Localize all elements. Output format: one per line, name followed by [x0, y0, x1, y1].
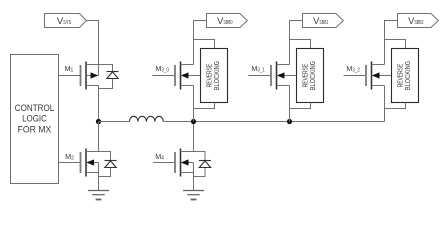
transistor M2	[59, 149, 117, 177]
reverse blocking box 2	[392, 49, 419, 103]
wire VSBB2 to branch rail	[385, 21, 398, 65]
wire box2 bottom jog to rail	[385, 103, 406, 109]
net flag VSYS	[45, 14, 87, 28]
ground symbol (M4)	[183, 191, 204, 200]
wire VSBB0 to branch rail	[194, 21, 207, 65]
control logic box U1	[11, 55, 59, 184]
svg-text:BLOCKING: BLOCKING	[403, 60, 412, 90]
junction node LX	[96, 119, 101, 124]
body diode of M2	[105, 160, 117, 162]
junction node bus/branch1	[287, 119, 292, 124]
svg-text:CONTROL: CONTROL	[15, 103, 54, 113]
wire branch2 source rail to bus	[384, 86, 386, 122]
svg-text:LOGIC: LOGIC	[22, 114, 47, 124]
wire M1 source to node LX	[98, 89, 100, 122]
junction node bus/branch0	[191, 119, 196, 124]
wire branch0 source rail to bus	[193, 86, 195, 122]
svg-text:FOR MX: FOR MX	[18, 124, 52, 134]
transistor M3_2	[344, 62, 392, 90]
wire branch1 source rail to bus	[289, 86, 291, 122]
inductor L1	[130, 116, 164, 121]
wire branch0 rail jog to box top	[194, 40, 215, 49]
svg-text:BLOCKING: BLOCKING	[308, 60, 317, 90]
wire box1 bottom jog to rail	[290, 103, 311, 109]
svg-text:BLOCKING: BLOCKING	[212, 60, 221, 90]
transistor M1	[59, 62, 119, 90]
wire M2 source to ground	[98, 173, 100, 191]
reverse blocking box 1	[297, 49, 324, 103]
net flag VSBB2	[398, 14, 439, 28]
wire VSBB1 to branch rail	[290, 21, 303, 65]
transistor M3_1	[249, 62, 297, 90]
wire box0 bottom jog to rail	[194, 103, 215, 109]
wire branch1 rail jog to box top	[290, 40, 311, 49]
wire node LX to inductor	[99, 121, 130, 123]
wire VSYS to M1 drain	[87, 21, 99, 65]
reverse blocking box 0	[201, 49, 228, 103]
transistor M3_0	[153, 62, 201, 90]
wire M4 source to ground	[193, 173, 195, 191]
net flag VSBB0	[207, 14, 248, 28]
body diode of M4	[199, 160, 211, 162]
body diode of M1	[107, 71, 119, 73]
transistor M4	[153, 149, 211, 177]
wire branch2 rail jog to box top	[385, 40, 406, 49]
ground symbol (M2)	[88, 191, 109, 200]
net flag VSBB1	[303, 14, 344, 28]
wire M2 drain to node LX	[98, 122, 100, 152]
wire M4 drain to bus node	[193, 122, 195, 152]
wire bus inductor to branches	[163, 121, 384, 123]
